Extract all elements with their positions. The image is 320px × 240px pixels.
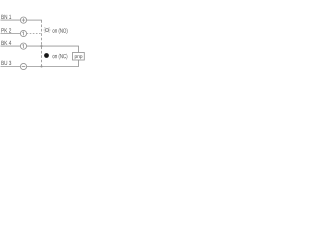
node BN 1 label	[1, 15, 11, 19]
node PK 2 label	[1, 28, 11, 32]
wire BK4 to pnp box	[27, 46, 79, 52]
wire PK2 left segment	[1, 33, 21, 35]
node BU 3 label	[1, 61, 11, 65]
wire BN1 right segment	[27, 19, 42, 21]
junction rail-BU3	[40, 65, 42, 67]
wire BU3 left segment	[1, 66, 21, 68]
wire BN1 left segment	[1, 19, 21, 21]
node BK 4 label	[1, 41, 11, 45]
LED-off legend symbol	[44, 53, 49, 58]
wire PK2 dashed segment	[27, 33, 42, 35]
legend text on (NO)	[53, 28, 68, 34]
output symbol pin4	[20, 43, 26, 49]
wire dashed vertical rail	[41, 20, 43, 66]
pnp label	[75, 55, 82, 59]
wire BK4 left segment	[1, 45, 21, 47]
LED-on legend symbol	[44, 28, 51, 33]
pnp output box	[73, 53, 85, 61]
supply plus terminal	[20, 17, 26, 23]
supply minus terminal	[20, 63, 26, 69]
legend text on (NC)	[53, 54, 68, 60]
output symbol pin2	[20, 30, 26, 36]
wire BU3 to pnp box bottom	[27, 60, 79, 67]
junction rail-BK4	[40, 45, 42, 47]
